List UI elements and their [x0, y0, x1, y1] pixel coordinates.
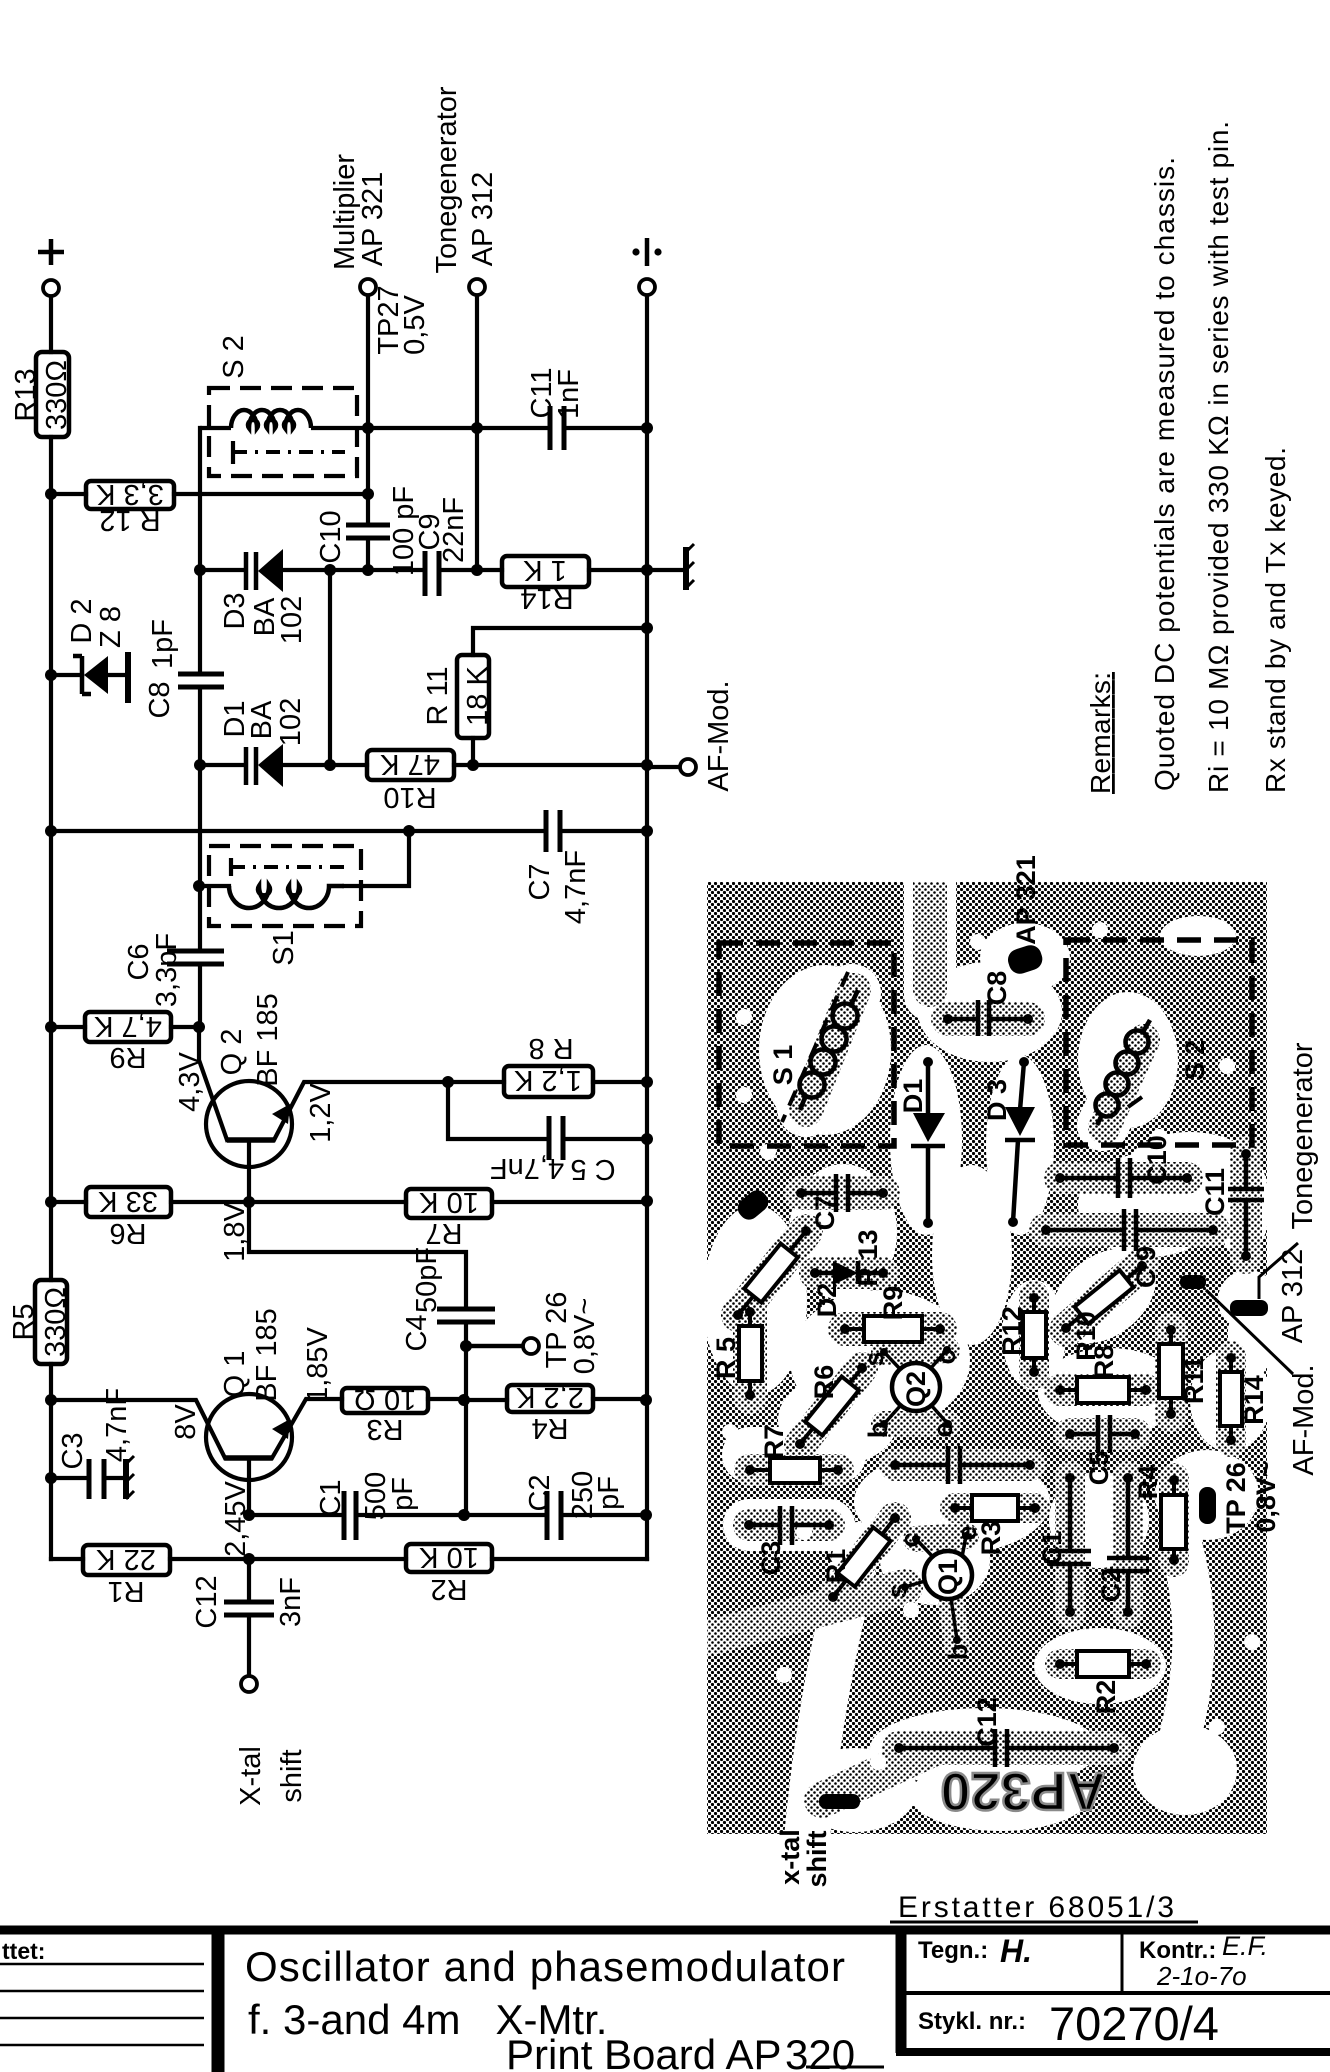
svg-text:R 11: R 11	[422, 666, 454, 725]
svg-text:R4: R4	[1133, 1465, 1163, 1500]
svg-text:AP 312: AP 312	[467, 172, 499, 267]
svg-text:TP 26: TP 26	[1221, 1462, 1251, 1534]
svg-text:C10: C10	[315, 510, 347, 563]
svg-text:BF 185: BF 185	[251, 1308, 283, 1402]
svg-text:S 1: S 1	[768, 1045, 798, 1086]
svg-text:C2: C2	[524, 1474, 556, 1511]
svg-text:102: 102	[276, 596, 308, 644]
svg-text:10 Ω: 10 Ω	[354, 1383, 417, 1415]
svg-text:shift: shift	[802, 1830, 832, 1887]
svg-text:22nF: 22nF	[438, 497, 470, 563]
svg-text:2,45V: 2,45V	[220, 1480, 252, 1556]
svg-text:C1: C1	[1037, 1531, 1067, 1566]
svg-text:R14: R14	[520, 582, 573, 614]
svg-text:1pF: 1pF	[147, 619, 179, 669]
svg-text:pF: pF	[593, 1476, 625, 1510]
svg-text:10 K: 10 K	[419, 1541, 479, 1573]
svg-text:AP320: AP320	[940, 1761, 1105, 1821]
svg-text:Q2: Q2	[901, 1371, 931, 1407]
svg-text:D 3: D 3	[982, 1079, 1012, 1121]
svg-text:Print Board AP 320: Print Board AP 320	[506, 2031, 855, 2072]
svg-text:C11: C11	[1200, 1168, 1230, 1216]
svg-text:R3: R3	[366, 1413, 403, 1445]
svg-text:102: 102	[275, 698, 307, 746]
svg-text:R7: R7	[759, 1425, 789, 1460]
svg-text:1,2V: 1,2V	[305, 1083, 337, 1143]
svg-text:0,8V~: 0,8V~	[1251, 1461, 1281, 1532]
svg-text:330Ω: 330Ω	[41, 360, 73, 430]
svg-text:e: e	[952, 1525, 982, 1540]
svg-text:C 5: C 5	[570, 1153, 615, 1185]
svg-text:47 K: 47 K	[380, 748, 440, 780]
svg-text:R1: R1	[107, 1575, 144, 1607]
svg-text:18 K: 18 K	[462, 666, 494, 726]
svg-text:C3: C3	[57, 1432, 89, 1469]
svg-text:4,7nF: 4,7nF	[560, 850, 592, 924]
svg-text:R10: R10	[383, 781, 436, 813]
svg-text:1,85V: 1,85V	[302, 1326, 334, 1402]
svg-text:D 2: D 2	[66, 598, 98, 643]
svg-text:BF 185: BF 185	[252, 993, 284, 1087]
svg-text:ttet:: ttet:	[2, 1938, 45, 1964]
svg-text:C 9: C 9	[1131, 1246, 1161, 1288]
svg-text:pF: pF	[387, 1477, 419, 1511]
svg-text:Tonegenerator: Tonegenerator	[431, 86, 463, 273]
svg-text:AF-Mod.: AF-Mod.	[703, 680, 735, 791]
svg-text:8V: 8V	[170, 1404, 202, 1440]
svg-text:R 8: R 8	[528, 1032, 573, 1064]
svg-text:AP 312: AP 312	[1277, 1249, 1309, 1344]
svg-text:33 K: 33 K	[98, 1185, 158, 1217]
svg-text:3nF: 3nF	[275, 1577, 307, 1627]
svg-text:3,3pF: 3,3pF	[151, 933, 183, 1007]
svg-text:R 12: R 12	[99, 504, 160, 536]
svg-text:C8: C8	[144, 681, 176, 718]
svg-text:C3: C3	[756, 1541, 786, 1576]
svg-text:C12: C12	[972, 1697, 1002, 1747]
svg-text:Quoted DC potentials are measu: Quoted DC potentials are measured to cha…	[1149, 157, 1180, 791]
svg-text:C5: C5	[1084, 1451, 1114, 1486]
svg-text:Tonegenerator: Tonegenerator	[1287, 1042, 1319, 1229]
svg-text:R5: R5	[8, 1303, 40, 1340]
svg-text:R12: R12	[997, 1306, 1027, 1356]
svg-text:e: e	[928, 1422, 958, 1437]
svg-text:1,8V: 1,8V	[219, 1202, 251, 1262]
svg-text:b: b	[863, 1422, 893, 1439]
svg-text:R11: R11	[1179, 1356, 1209, 1404]
svg-text:AP 321: AP 321	[1011, 855, 1041, 945]
svg-text:C8: C8	[982, 971, 1012, 1006]
svg-text:c: c	[895, 1532, 925, 1547]
svg-text:s: s	[859, 1351, 889, 1366]
svg-text:x-tal: x-tal	[775, 1829, 805, 1885]
svg-text:b: b	[943, 1644, 973, 1661]
svg-text:D1: D1	[898, 1079, 928, 1114]
svg-text:22 K: 22 K	[96, 1543, 156, 1575]
svg-text:R9: R9	[878, 1286, 908, 1321]
svg-text:S 2: S 2	[218, 335, 250, 379]
svg-text:4,7nF: 4,7nF	[101, 1388, 133, 1462]
svg-text:1nF: 1nF	[553, 369, 585, 419]
svg-text:Q1: Q1	[933, 1559, 963, 1595]
svg-text:R1: R1	[821, 1549, 851, 1584]
svg-text:BA: BA	[246, 700, 278, 739]
svg-text:H.: H.	[1000, 1933, 1032, 1969]
svg-text:1 K: 1 K	[523, 554, 567, 586]
svg-text:S 2: S 2	[1180, 1040, 1210, 1081]
svg-text:shift: shift	[276, 1749, 308, 1802]
svg-text:Rx stand by and Tx keyed.: Rx stand by and Tx keyed.	[1260, 447, 1291, 793]
svg-text:R2: R2	[430, 1573, 467, 1605]
svg-text:R4: R4	[531, 1412, 568, 1444]
svg-text:C12: C12	[191, 1575, 223, 1628]
svg-text:Ri = 10 MΩ provided 330 KΩ in: Ri = 10 MΩ provided 330 KΩ in series wit…	[1203, 121, 1234, 793]
svg-text:50pF: 50pF	[411, 1247, 443, 1313]
svg-text:C1: C1	[315, 1479, 347, 1516]
svg-text:C10: C10	[1142, 1135, 1172, 1185]
svg-text:R7: R7	[425, 1217, 462, 1249]
svg-text:Kontr.:: Kontr.:	[1139, 1937, 1216, 1964]
svg-text:S1: S1	[268, 930, 300, 965]
svg-text:D2: D2	[812, 1283, 842, 1318]
svg-text:C4: C4	[401, 1314, 433, 1351]
svg-text:C2: C2	[1096, 1568, 1126, 1603]
svg-text:E.F.: E.F.	[1222, 1931, 1268, 1961]
svg-text:D3: D3	[219, 592, 251, 629]
svg-text:Remarks:: Remarks:	[1085, 672, 1116, 794]
svg-text:R14: R14	[1239, 1375, 1269, 1425]
svg-text:70270/4: 70270/4	[1049, 1997, 1219, 2050]
svg-text:R8: R8	[1089, 1345, 1119, 1380]
svg-text:C7: C7	[810, 1196, 840, 1231]
svg-text:AF-Mod.: AF-Mod.	[1288, 1364, 1320, 1475]
svg-text:10 K: 10 K	[419, 1186, 479, 1218]
svg-text:R2: R2	[1091, 1680, 1121, 1715]
svg-text:X-tal: X-tal	[235, 1746, 267, 1806]
svg-text:330Ω: 330Ω	[40, 1287, 72, 1357]
svg-text:4,7nF: 4,7nF	[490, 1152, 564, 1184]
svg-text:c: c	[931, 1349, 961, 1364]
svg-text:Stykl. nr.:: Stykl. nr.:	[918, 2008, 1026, 2035]
svg-text:1,2 K: 1,2 K	[513, 1064, 581, 1096]
svg-text:0,8V~: 0,8V~	[569, 1298, 601, 1375]
svg-text:R 5: R 5	[711, 1337, 741, 1379]
svg-text:4,7 K: 4,7 K	[93, 1010, 161, 1042]
svg-text:s: s	[882, 1583, 912, 1598]
svg-text:R13: R13	[10, 368, 42, 421]
svg-text:Oscillator and phasemodulato: Oscillator and phasemodulator	[245, 1943, 845, 1990]
svg-text:Tegn.:: Tegn.:	[918, 1937, 988, 1964]
svg-text:R 13: R 13	[853, 1229, 883, 1286]
svg-text:C7: C7	[524, 863, 556, 900]
svg-text:0,5V: 0,5V	[399, 295, 431, 355]
svg-text:4,3V: 4,3V	[174, 1052, 206, 1112]
svg-text:2,2 K: 2,2 K	[515, 1381, 583, 1413]
svg-text:R9: R9	[109, 1041, 146, 1073]
svg-text:Q 2: Q 2	[216, 1029, 248, 1076]
svg-text:R6: R6	[809, 1365, 839, 1400]
svg-text:AP 321: AP 321	[357, 172, 389, 267]
svg-text:Q 1: Q 1	[219, 1351, 251, 1398]
svg-text:Z 8: Z 8	[95, 606, 127, 648]
svg-text:R6: R6	[109, 1217, 146, 1249]
svg-text:2-1o-7o: 2-1o-7o	[1156, 1961, 1247, 1991]
